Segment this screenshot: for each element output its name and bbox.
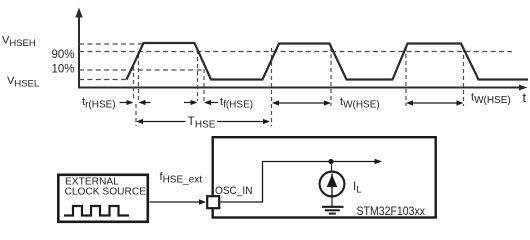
wire current source to ground <box>331 197 333 206</box>
vertical dashed at rise1 10% crossing <box>133 66 135 101</box>
OSC_IN pin square <box>207 196 219 208</box>
vertical dashed at rise2 90% crossing <box>271 48 273 126</box>
vertical dashed at fall1 90% crossing <box>197 50 199 101</box>
internal wire OSC_IN to current source <box>221 159 383 202</box>
wire junction to current source <box>331 162 333 173</box>
junction node <box>328 159 333 164</box>
x-axis (time axis) <box>78 85 528 91</box>
dashed level 10% <box>79 69 204 71</box>
t_f(HSE) arrows <box>184 100 218 105</box>
svg-text:CLOCK SOURCE: CLOCK SOURCE <box>65 187 147 198</box>
svg-text:t: t <box>523 90 527 105</box>
svg-text:10%: 10% <box>51 64 74 76</box>
HSE clock waveform <box>127 43 529 80</box>
vertical dashed at fall3 90% crossing <box>463 48 465 106</box>
vertical dashed at rise3 90% crossing <box>405 47 407 106</box>
dashed level 90% <box>79 51 512 53</box>
ground <box>322 207 344 214</box>
svg-text:90%: 90% <box>51 49 74 61</box>
T_HSE period arrow <box>136 119 270 124</box>
vertical dashed at fall2 90% crossing <box>330 47 332 106</box>
vertical dashed at fall1 10% crossing <box>203 62 205 101</box>
vertical dashed rise1 midpoint reference for T_HSE <box>135 104 137 126</box>
svg-text:OSC_IN: OSC_IN <box>215 185 253 197</box>
y-axis <box>75 8 82 88</box>
svg-text:STM32F103xx: STM32F103xx <box>357 204 426 218</box>
vertical dashed at rise1 90% crossing <box>138 54 140 101</box>
STM32F103xx box <box>213 137 436 217</box>
dashed level V_HSEL <box>79 79 127 81</box>
wire external clock to OSC_IN <box>150 199 207 205</box>
t_W(HSE) arrow cycle3 <box>406 100 464 105</box>
EXTERNAL CLOCK SOURCE box <box>58 175 148 222</box>
dashed level V_HSEH <box>79 43 143 45</box>
clock square wave glyph <box>64 206 129 216</box>
t_r(HSE) arrows <box>120 100 151 105</box>
t_W(HSE) arrow cycle2 <box>272 100 331 105</box>
current source I_L <box>320 172 345 197</box>
